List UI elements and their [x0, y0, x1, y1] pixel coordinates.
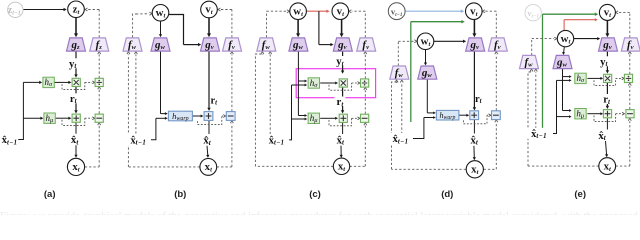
svg-text:(c): (c) [309, 189, 321, 200]
svg-text:Figure: we provide graphical m: Figure: we provide graphical models of t… [0, 211, 640, 215]
svg-text:(e): (e) [574, 189, 586, 200]
svg-text:(d): (d) [441, 189, 453, 200]
svg-text:(a): (a) [44, 189, 56, 200]
svg-text:(b): (b) [174, 189, 186, 200]
